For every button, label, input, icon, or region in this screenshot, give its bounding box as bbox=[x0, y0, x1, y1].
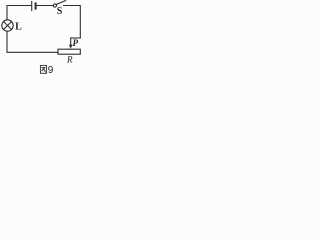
switch S lever bbox=[56, 1, 65, 5]
svg-text:R: R bbox=[66, 54, 73, 64]
switch S pivot circle bbox=[53, 4, 56, 7]
svg-text:9: 9 bbox=[48, 65, 54, 76]
battery cell: long plate bbox=[31, 2, 33, 11]
svg-text:S: S bbox=[57, 6, 63, 17]
rheostat R body bbox=[58, 49, 80, 54]
slider arrow P shaft bbox=[70, 38, 72, 45]
wire switch right contact to top-right corner and down bbox=[64, 6, 81, 39]
wire top-left: lamp top up and right to battery bbox=[7, 6, 31, 21]
lamp L cross stroke 1 bbox=[4, 22, 12, 30]
svg-text:L: L bbox=[15, 22, 22, 33]
wire to slider bbox=[71, 37, 81, 39]
slider arrow head bbox=[69, 45, 73, 49]
wire R left to bottom-left corner and up to lamp bbox=[7, 31, 58, 52]
battery cell: short thick plate bbox=[35, 3, 37, 8]
caption character 图 drawn as glyph bbox=[40, 65, 46, 73]
svg-text:P: P bbox=[73, 38, 79, 48]
wire battery to switch bbox=[37, 5, 54, 7]
lamp L cross stroke 2 bbox=[4, 22, 12, 30]
lamp L circle bbox=[2, 20, 13, 31]
